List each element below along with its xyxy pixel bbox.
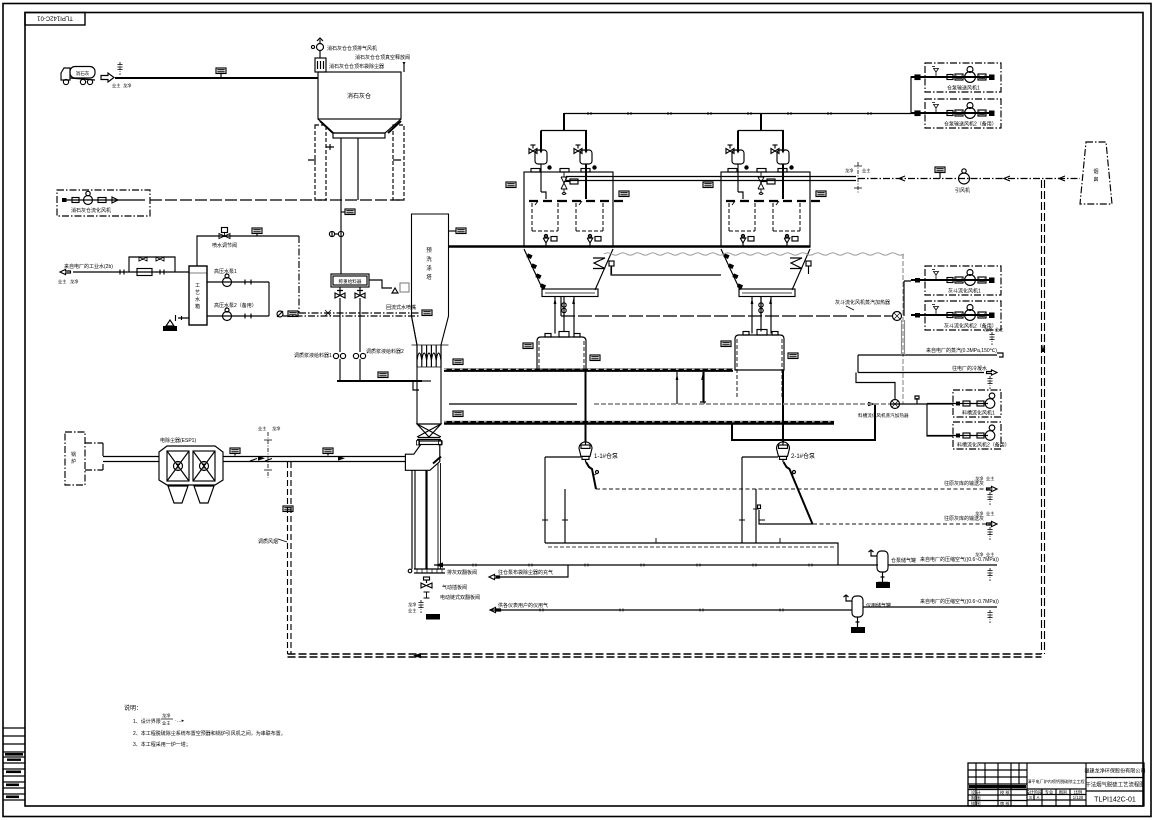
absorber unit 2: [721, 113, 820, 321]
recirculation duct bottom run: [288, 653, 1042, 658]
svg-text:业主: 业主: [58, 278, 66, 284]
flue duct to chimney: [858, 176, 1080, 181]
instrument tag on discharge: [341, 209, 355, 215]
svg-text:料槽流化风机2（备用）: 料槽流化风机2（备用）: [957, 442, 1010, 449]
instrument air receiver: [844, 595, 892, 633]
svg-text:说明：: 说明：: [124, 704, 142, 712]
svg-text:引风机: 引风机: [955, 187, 970, 194]
svg-text:描 图: 描 图: [971, 800, 981, 807]
svg-text:校 核: 校 核: [1000, 789, 1010, 796]
svg-text:业主: 业主: [986, 475, 994, 481]
svg-text:干法烟气脱硫工艺流程图: 干法烟气脱硫工艺流程图: [1085, 781, 1144, 789]
svg-text:锅: 锅: [71, 451, 76, 458]
svg-text:消石灰仓仓顶排气风机: 消石灰仓仓顶排气风机: [327, 45, 377, 52]
ash discharge chute box: [426, 614, 440, 620]
trough fluidizing fan 1: [927, 390, 1001, 417]
svg-text:业主: 业主: [408, 607, 416, 613]
flue inlet elbow: [405, 445, 441, 570]
silo fluidizing columns: [308, 125, 404, 200]
boundary marker ash discharge: [408, 600, 424, 613]
svg-text:来自电厂的压缩空气((0.6~0.7MPa)): 来自电厂的压缩空气((0.6~0.7MPa)): [920, 556, 999, 563]
conveying air header top: [564, 75, 925, 116]
instrument tag flue duct 1: [230, 448, 240, 456]
chimney: [1080, 142, 1112, 204]
svg-text:供各仪表用户的仪用气: 供各仪表用户的仪用气: [498, 602, 548, 609]
general notes: [124, 704, 286, 748]
tower bottom cone: [417, 424, 443, 445]
bin 1: [523, 332, 600, 371]
svg-text:塔: 塔: [426, 273, 432, 281]
bin 1 discharge: [585, 370, 587, 442]
blow tank pump 1: [579, 442, 618, 462]
svg-text:龙净: 龙净: [975, 551, 983, 558]
blow tank air receiver: [869, 550, 917, 588]
svg-text:消石灰仓流化风机: 消石灰仓流化风机: [71, 207, 111, 214]
ID fan: [955, 169, 970, 194]
svg-text:往仓泵布袋除尘器的充气: 往仓泵布袋除尘器的充气: [498, 569, 553, 576]
platform line mid: [449, 403, 577, 405]
silo top bag filter: [315, 58, 326, 72]
svg-text:龙净: 龙净: [272, 425, 280, 432]
instrument tags absorber 2: [703, 182, 826, 197]
pipe silo discharge down: [340, 200, 342, 274]
instrument tags absorber 1: [506, 182, 629, 197]
svg-text:1/120: 1/120: [1073, 795, 1084, 800]
gray revision line: [604, 253, 904, 255]
support rack line lower: [444, 411, 834, 423]
svg-text:气动插板阀: 气动插板阀: [442, 584, 467, 591]
svg-text:龙净: 龙净: [70, 278, 78, 285]
svg-text:烟: 烟: [1093, 168, 1098, 175]
trough fluidizing fan 2: [927, 422, 1010, 449]
svg-text:涤: 涤: [426, 264, 432, 272]
svg-text:调质浆液给料器1: 调质浆液给料器1: [294, 352, 332, 359]
conveying line 1 to ash silo: [596, 475, 997, 505]
boundary marker flue duct: [258, 425, 280, 478]
svg-text:排灰双翻板阀: 排灰双翻板阀: [447, 569, 477, 576]
svg-text:龙净: 龙净: [123, 82, 131, 89]
instrument tag on tower top: [449, 228, 467, 234]
svg-text:水: 水: [195, 296, 200, 303]
svg-text:料槽流化风机蒸汽加热器: 料槽流化风机蒸汽加热器: [858, 412, 909, 419]
svg-text:消石灰仓仓顶真空释放阀: 消石灰仓仓顶真空释放阀: [355, 54, 410, 61]
svg-text:喷水调节阀: 喷水调节阀: [212, 242, 237, 249]
steam supply entry: [858, 320, 1003, 357]
process water tank: [189, 266, 207, 325]
instrument tag flue duct 2: [323, 448, 333, 456]
silo fluidizing blower box: [57, 190, 150, 216]
svg-text:料槽流化风机1: 料槽流化风机1: [962, 410, 995, 417]
svg-text:仪用储气罐: 仪用储气罐: [866, 602, 891, 609]
instrument air distribution: [490, 602, 852, 613]
tower internal tray: [419, 380, 431, 382]
svg-text:图别: 图别: [1059, 788, 1067, 795]
svg-text:调质风烟: 调质风烟: [258, 538, 278, 545]
tank drain: [163, 315, 189, 331]
electrostatic precipitator ESP1: [159, 437, 223, 485]
bin 2 discharge: [782, 370, 784, 442]
conditioning gas recirculation duct: [258, 462, 293, 654]
hopper fluidizing fan 1: [911, 266, 1001, 295]
pipe fluidizing air to silo: [150, 199, 404, 201]
svg-text:1、设计界限: 1、设计界限: [133, 718, 161, 725]
high pressure pump 2: [207, 282, 269, 321]
clean gas duct to ID fan: [566, 177, 856, 181]
svg-text:TLPI142C-01: TLPI142C-01: [36, 14, 72, 20]
svg-text:业主: 业主: [995, 326, 1003, 332]
svg-text:漳平电厂炉内喷钙脱硫除尘工程: 漳平电厂炉内喷钙脱硫除尘工程: [1027, 778, 1084, 784]
svg-text:称重给料器: 称重给料器: [339, 278, 362, 285]
svg-text:业主: 业主: [862, 167, 870, 173]
svg-text:仓泵输送风机2（备用）: 仓泵输送风机2（备用）: [944, 121, 997, 128]
sheet number box top-left: [25, 13, 85, 26]
svg-text:灰斗流化风机1: 灰斗流化风机1: [948, 288, 981, 295]
silo vacuum relief valve: [403, 62, 406, 72]
pump 1 discharge slant: [586, 462, 599, 489]
boundary marker truck line: [112, 62, 131, 89]
bin 2 feed pipes: [752, 319, 771, 334]
svg-text:消石灰: 消石灰: [76, 70, 90, 77]
svg-text:业主: 业主: [162, 720, 170, 726]
support rack line upper: [444, 359, 733, 370]
svg-text:调质浆液给料器2: 调质浆液给料器2: [366, 348, 404, 355]
svg-text:消石灰仓仓顶布袋除尘器: 消石灰仓仓顶布袋除尘器: [329, 63, 384, 70]
pump aeration loop: [542, 457, 838, 565]
weigh feeder: [331, 274, 409, 293]
gray revision line riser: [902, 254, 904, 404]
steam heater 1: [835, 299, 902, 321]
instrument tag on lime pipe: [216, 68, 226, 78]
steam heater 2: [856, 373, 909, 420]
water bypass loop: [129, 257, 175, 272]
silo vent fan: [311, 38, 323, 58]
lime silo: [318, 72, 401, 138]
svg-text:龙净: 龙净: [975, 510, 983, 517]
pipe lime conveying to silo: [115, 77, 318, 79]
svg-text:电除尘器(ESP1): 电除尘器(ESP1): [160, 437, 196, 444]
venturi section: [412, 345, 449, 367]
svg-text:业主: 业主: [112, 82, 120, 88]
svg-text:仓泵输送风机1: 仓泵输送风机1: [947, 85, 980, 92]
svg-text:业主: 业主: [986, 510, 994, 516]
svg-text:专业: 专业: [1045, 788, 1053, 795]
svg-text:龙净: 龙净: [845, 167, 853, 174]
condensate return to plant: [858, 355, 997, 389]
prescrubber tower shell: [412, 214, 449, 424]
svg-text:业主: 业主: [258, 425, 266, 431]
instrument air supply: [863, 598, 999, 623]
ash double flap valve: [408, 569, 477, 576]
industrial water inlet: [58, 263, 189, 285]
block arrow lime feed: [101, 73, 114, 82]
recirculation duct right riser: [1042, 180, 1045, 654]
svg-text:高压水泵1: 高压水泵1: [214, 268, 237, 275]
high pressure pump 1: [207, 268, 269, 287]
svg-text:龙净: 龙净: [984, 326, 992, 333]
svg-text:往原灰库的输送灰: 往原灰库的输送灰: [944, 515, 984, 522]
absorber unit 1: [524, 113, 623, 321]
slurry feeder 2: [353, 348, 404, 381]
spray water control valve circuit: [197, 228, 299, 314]
hopper fluidizing fan 2: [911, 301, 1001, 330]
svg-text:业主: 业主: [986, 551, 994, 557]
svg-text:预: 预: [426, 246, 432, 254]
svg-text:福建龙净环保股份有限公司: 福建龙净环保股份有限公司: [1084, 768, 1145, 775]
title block: [968, 763, 1146, 807]
svg-text:3、本工程采用一炉一塔；: 3、本工程采用一炉一塔；: [133, 741, 191, 748]
casing bottom heavy line: [449, 245, 810, 248]
compressed air header: [434, 562, 878, 579]
blow tank pump 2: [777, 442, 816, 462]
svg-text:S: S: [1029, 795, 1032, 800]
riser arrows to rack: [676, 372, 704, 404]
compressed air supply 1: [888, 551, 999, 581]
svg-text:工: 工: [195, 283, 200, 289]
slurry distribution plate: [337, 372, 422, 390]
svg-text:龙净: 龙净: [162, 712, 170, 719]
slurry feeder 1: [294, 352, 346, 381]
svg-text:箱: 箱: [195, 303, 200, 310]
svg-text:炉: 炉: [71, 458, 76, 465]
boiler: [65, 432, 103, 485]
svg-text:仓泵储气罐: 仓泵储气罐: [891, 557, 916, 564]
pump 2 discharge slant: [758, 462, 813, 524]
svg-text:2、本工程脱硫除尘系统布置空预器和锅炉引风机之间，为串联布置: 2、本工程脱硫除尘系统布置空预器和锅炉引风机之间，为串联布置。: [133, 730, 286, 737]
svg-text:A: A: [1037, 795, 1040, 800]
trough aeration header: [732, 402, 875, 440]
valve slurry feed 1: [335, 287, 345, 352]
motor chain double flap valve: [424, 592, 481, 601]
svg-text:1-1#仓泵: 1-1#仓泵: [594, 452, 618, 460]
svg-text:洗: 洗: [426, 255, 432, 263]
pneumatic gate valve: [421, 577, 467, 591]
blow tank conveying fan 2: [911, 99, 1001, 128]
svg-text:囱: 囱: [1093, 176, 1098, 183]
svg-text:艺: 艺: [195, 290, 200, 296]
svg-text:龙净: 龙净: [408, 601, 416, 608]
svg-text:来自电厂的蒸汽(0.3MPa,150℃): 来自电厂的蒸汽(0.3MPa,150℃): [926, 347, 997, 354]
svg-text:高压水泵2（备用）: 高压水泵2（备用）: [214, 302, 257, 309]
svg-text:来自电厂的压缩空气((0.6~0.7MPa)): 来自电厂的压缩空气((0.6~0.7MPa)): [920, 598, 999, 605]
rotary valve on discharge: [329, 231, 343, 236]
svg-text:TLPI142C-01: TLPI142C-01: [1094, 797, 1136, 804]
svg-text:电动链式双翻板阀: 电动链式双翻板阀: [440, 594, 480, 601]
signature strip bottom-left: [3, 728, 25, 800]
bin 2: [721, 330, 798, 399]
svg-text:·…▸: ·…▸: [175, 718, 185, 724]
conveying line 2 to ash silo: [780, 510, 997, 540]
blow tank conveying fan 1: [911, 63, 1001, 92]
spray water line to prescrubber: [277, 304, 432, 317]
instrument tag flue to chimney: [935, 167, 945, 179]
lime truck: [61, 67, 95, 85]
boundary marker near ID fan: [845, 162, 870, 194]
svg-text:灰斗流化风机蒸汽加热器: 灰斗流化风机蒸汽加热器: [835, 299, 890, 306]
overflow pipe between units: [611, 267, 721, 275]
bin 1 feed pipes: [555, 319, 574, 334]
flue duct ESP to prescrubber: [223, 456, 405, 462]
flue duct boiler to ESP: [103, 457, 159, 462]
svg-text:2-1#仓泵: 2-1#仓泵: [791, 452, 815, 460]
bin2 support: [700, 372, 706, 402]
svg-text:往原灰库的输送灰: 往原灰库的输送灰: [944, 480, 984, 487]
svg-text:往电厂的冷凝水: 往电厂的冷凝水: [952, 365, 987, 372]
ESP hoppers: [168, 486, 214, 503]
svg-text:龙净: 龙净: [975, 475, 983, 482]
valve slurry feed 2: [355, 287, 365, 352]
trough fluidizing air line: [594, 396, 953, 436]
svg-text:消石灰仓: 消石灰仓: [347, 92, 371, 100]
hopper fluidizing air line: [561, 281, 911, 316]
svg-text:来自电厂的工业水(2b): 来自电厂的工业水(2b): [64, 263, 113, 270]
svg-text:审 核: 审 核: [1000, 800, 1010, 807]
